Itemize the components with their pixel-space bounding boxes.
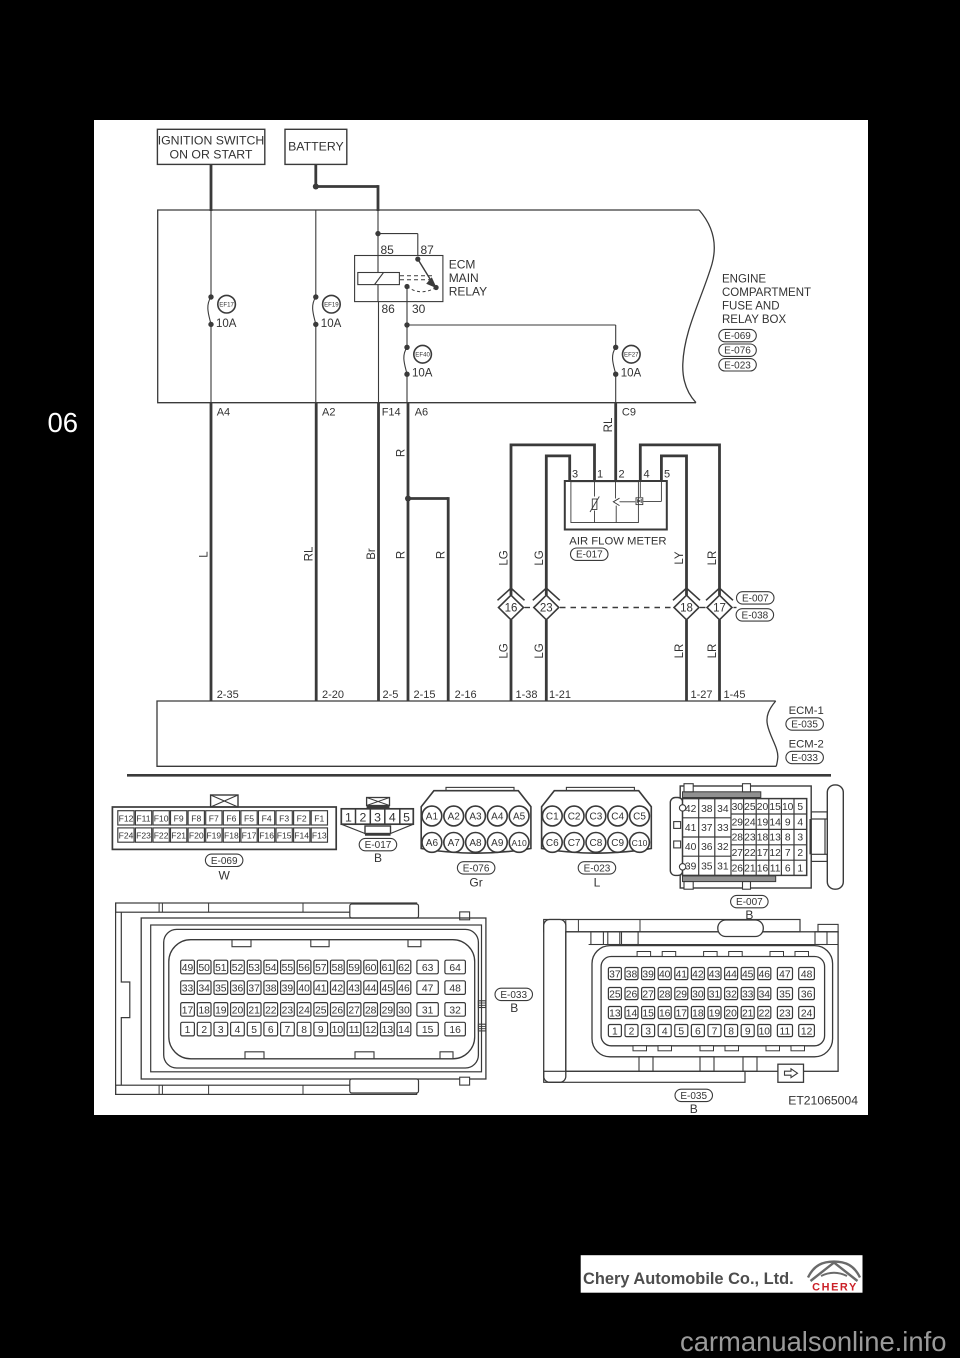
connector ref E-017 (571, 548, 609, 561)
svg-text:28: 28 (365, 1005, 377, 1016)
wire colour labels above connectors (499, 550, 720, 565)
svg-text:16: 16 (659, 1009, 671, 1020)
svg-text:2-35: 2-35 (217, 689, 239, 701)
svg-text:15: 15 (422, 1025, 434, 1036)
dashed connector grouping line (525, 607, 737, 609)
svg-text:E-076: E-076 (724, 346, 751, 357)
wire branch to EF27 (407, 325, 616, 347)
svg-text:1: 1 (185, 1025, 191, 1036)
connector ref E-076 (719, 344, 757, 357)
svg-text:25: 25 (315, 1005, 327, 1016)
svg-text:26: 26 (332, 1005, 344, 1016)
svg-text:F24: F24 (119, 831, 134, 841)
svg-text:F17: F17 (242, 831, 257, 841)
connector E-007 bottom tabs (684, 882, 751, 890)
svg-text:F18: F18 (224, 831, 239, 841)
svg-text:30: 30 (732, 802, 744, 813)
svg-text:60: 60 (365, 963, 377, 974)
svg-text:E-033: E-033 (500, 990, 527, 1001)
svg-text:24: 24 (744, 817, 756, 828)
svg-text:35: 35 (215, 984, 227, 995)
connector ref E-023 (719, 359, 757, 372)
svg-text:23: 23 (779, 1009, 791, 1020)
svg-text:2-5: 2-5 (383, 689, 399, 701)
svg-text:10: 10 (782, 802, 794, 813)
svg-text:87: 87 (421, 243, 435, 257)
wire ignition feed (210, 164, 213, 211)
connector E-017 lower key (341, 824, 413, 834)
connector E-007 outer shell (680, 786, 811, 888)
engine compartment fuse and relay box label (722, 274, 811, 327)
wire to relay 87 (378, 234, 418, 256)
node battery junction (313, 184, 319, 190)
node relay branch (375, 231, 380, 236)
connector ref E-033 (786, 751, 824, 764)
svg-text:11: 11 (349, 1025, 360, 1036)
svg-text:Br: Br (366, 548, 378, 560)
connector E-035 top flange (544, 920, 838, 932)
svg-text:10A: 10A (321, 318, 342, 330)
svg-text:AIR FLOW METER: AIR FLOW METER (569, 536, 666, 548)
svg-text:Chery Automobile Co., Ltd.: Chery Automobile Co., Ltd. (583, 1270, 794, 1288)
svg-text:58: 58 (332, 963, 344, 974)
connector E-076 body and pins (421, 787, 531, 889)
svg-text:22: 22 (759, 1009, 771, 1020)
connector E-035 top hump (718, 920, 764, 937)
svg-text:86: 86 (382, 302, 396, 316)
svg-text:ECM-2: ECM-2 (789, 739, 824, 751)
relay terminal labels 86 30 (382, 302, 426, 316)
svg-text:F12: F12 (119, 813, 134, 823)
svg-text:F9: F9 (174, 813, 184, 823)
svg-text:33: 33 (717, 823, 729, 834)
svg-text:B: B (690, 1102, 698, 1116)
svg-text:FUSE AND: FUSE AND (722, 301, 780, 313)
svg-text:F3: F3 (279, 813, 289, 823)
svg-text:9: 9 (785, 817, 791, 828)
svg-text:22: 22 (744, 848, 756, 859)
svg-text:25: 25 (744, 802, 756, 813)
svg-text:32: 32 (717, 842, 729, 853)
wire EF27 to C9 (615, 374, 617, 403)
svg-text:57: 57 (315, 963, 327, 974)
svg-text:55: 55 (282, 963, 294, 974)
svg-text:EF27: EF27 (624, 352, 639, 359)
svg-text:C7: C7 (568, 838, 581, 849)
svg-text:EF17: EF17 (219, 302, 234, 309)
svg-text:MAIN: MAIN (449, 271, 479, 285)
svg-text:27: 27 (348, 1005, 360, 1016)
svg-text:42: 42 (692, 970, 704, 981)
Chery logo wordmark (812, 1282, 858, 1294)
svg-text:9: 9 (745, 1027, 751, 1038)
svg-text:25: 25 (609, 990, 621, 1001)
svg-text:IGNITION SWITCH: IGNITION SWITCH (158, 134, 265, 148)
AFM diode at pin 4 (636, 481, 643, 505)
connector E-007 left bumps (674, 822, 681, 848)
svg-text:A2: A2 (448, 812, 461, 823)
wire 30 down (406, 287, 408, 326)
connector E-007 left tab (670, 798, 683, 876)
pin labels A4 A2 F14 A6 C9 (217, 407, 636, 419)
svg-text:F23: F23 (136, 831, 151, 841)
svg-text:2-20: 2-20 (322, 689, 344, 701)
wire battery feed (314, 164, 317, 188)
svg-text:A7: A7 (448, 838, 461, 849)
svg-text:8: 8 (785, 833, 791, 844)
svg-text:16: 16 (505, 603, 518, 615)
svg-text:E-017: E-017 (365, 840, 392, 851)
svg-text:F4: F4 (262, 813, 272, 823)
svg-text:E-017: E-017 (576, 550, 603, 561)
relay coil (358, 273, 400, 285)
svg-text:C9: C9 (611, 838, 624, 849)
svg-text:E-007: E-007 (736, 897, 763, 908)
footer company name (583, 1270, 794, 1288)
svg-text:ECM-1: ECM-1 (789, 705, 824, 717)
svg-text:33: 33 (742, 990, 754, 1001)
svg-text:36: 36 (232, 984, 244, 995)
svg-text:50: 50 (198, 963, 210, 974)
svg-text:35: 35 (779, 990, 791, 1001)
connector E-069 body (112, 807, 336, 849)
svg-text:4: 4 (662, 1027, 668, 1038)
connector E-069 envelope symbol (211, 795, 238, 807)
watermark carmanualsonline.info (680, 1326, 946, 1357)
wire 17 to 1-45, colour LR (707, 620, 720, 701)
svg-text:4: 4 (797, 817, 803, 828)
E-035 colour B (690, 1102, 698, 1116)
svg-text:1-21: 1-21 (549, 689, 571, 701)
wire F14 to 2-5, colour Br (366, 403, 379, 701)
svg-text:L: L (594, 876, 601, 890)
wire AFM pin 1 to connector 16 (511, 445, 595, 595)
svg-text:E-023: E-023 (724, 360, 751, 371)
svg-text:36: 36 (701, 842, 713, 853)
svg-text:20: 20 (232, 1005, 244, 1016)
svg-text:R: R (436, 551, 448, 559)
ignition switch box (157, 129, 264, 164)
wire A2 to 2-20, colour RL (304, 403, 317, 701)
svg-text:15: 15 (642, 1009, 654, 1020)
svg-text:28: 28 (659, 990, 671, 1001)
E-069 colour W (219, 869, 231, 883)
connector ref E-035 label (675, 1089, 713, 1102)
svg-text:59: 59 (348, 963, 360, 974)
svg-text:W: W (219, 869, 231, 883)
svg-text:9: 9 (318, 1025, 324, 1036)
svg-text:1: 1 (345, 810, 352, 824)
connector E-035 bottom flange (544, 1071, 745, 1082)
svg-text:11: 11 (780, 1027, 791, 1038)
connector E-033 shell notches (232, 940, 453, 1059)
wire EF19 feed (315, 210, 317, 297)
diagram number ET21065004 (788, 1094, 858, 1108)
svg-text:ECM: ECM (449, 258, 476, 272)
connector E-033 body frames (141, 918, 486, 1079)
svg-text:85: 85 (381, 243, 395, 257)
svg-text:17: 17 (182, 1005, 194, 1016)
svg-text:17: 17 (676, 1009, 688, 1020)
svg-text:C9: C9 (622, 407, 636, 419)
svg-text:LG: LG (534, 550, 546, 565)
svg-text:14: 14 (398, 1025, 410, 1036)
svg-text:5: 5 (678, 1027, 684, 1038)
svg-text:21: 21 (248, 1005, 260, 1016)
svg-text:R: R (396, 551, 408, 559)
svg-text:16: 16 (757, 863, 769, 874)
svg-text:E-038: E-038 (742, 610, 769, 621)
connector E-033 top flange (116, 903, 417, 912)
svg-text:43: 43 (709, 970, 721, 981)
svg-text:A4: A4 (491, 812, 504, 823)
footer company box (581, 1255, 863, 1293)
svg-text:A1: A1 (426, 812, 439, 823)
wire battery branch to relay (314, 185, 378, 211)
svg-text:F22: F22 (154, 831, 169, 841)
svg-text:23: 23 (744, 833, 756, 844)
connector E-023 body and pins (542, 787, 652, 889)
svg-text:20: 20 (757, 802, 769, 813)
svg-text:carmanualsonline.info: carmanualsonline.info (680, 1326, 946, 1357)
svg-text:C1: C1 (546, 812, 559, 823)
svg-text:10: 10 (332, 1025, 344, 1036)
svg-text:2-16: 2-16 (455, 689, 477, 701)
svg-text:14: 14 (626, 1009, 638, 1020)
svg-text:53: 53 (248, 963, 260, 974)
svg-text:1-45: 1-45 (724, 689, 746, 701)
svg-text:47: 47 (422, 984, 434, 995)
AFM transistor at pin 2 (613, 481, 635, 523)
wire 23 to 1-21, colour LG (534, 620, 547, 701)
svg-text:13: 13 (382, 1025, 394, 1036)
connector E-035 pin grid (608, 968, 814, 1038)
connector E-035 shell notches (633, 952, 809, 1051)
svg-text:27: 27 (642, 990, 654, 1001)
svg-text:4: 4 (389, 810, 396, 824)
wire A4 to 2-35, colour L (199, 403, 212, 701)
svg-text:34: 34 (717, 804, 729, 815)
svg-text:3: 3 (797, 833, 803, 844)
svg-text:18: 18 (680, 603, 693, 615)
svg-text:17: 17 (713, 603, 726, 615)
E-007 colour B (745, 908, 753, 922)
svg-text:ET21065004: ET21065004 (788, 1094, 858, 1108)
svg-text:RL: RL (304, 546, 316, 561)
connector E-035 rounded shells (592, 946, 833, 1057)
svg-text:27: 27 (732, 848, 744, 859)
svg-text:12: 12 (801, 1027, 813, 1038)
svg-text:37: 37 (609, 970, 621, 981)
svg-text:48: 48 (449, 984, 461, 995)
svg-text:26: 26 (626, 990, 638, 1001)
wire 30 to EF40 (406, 325, 408, 347)
svg-text:RELAY BOX: RELAY BOX (722, 314, 786, 326)
svg-text:E-023: E-023 (584, 863, 611, 874)
svg-text:40: 40 (685, 842, 697, 853)
svg-text:4: 4 (235, 1025, 241, 1036)
svg-text:19: 19 (215, 1005, 227, 1016)
AFM pin 5 internal wire (643, 481, 661, 501)
fuse EF27 10A (613, 345, 642, 380)
svg-text:16: 16 (449, 1025, 461, 1036)
svg-text:14: 14 (769, 817, 781, 828)
fuse EF19 10A (313, 294, 342, 330)
wire C9 to air flow meter pin 2, colour RL (603, 403, 616, 481)
wire AFM pin 3 to connector 23 (546, 456, 569, 595)
E-017 colour B (374, 851, 382, 865)
svg-text:F11: F11 (136, 813, 150, 823)
svg-text:F6: F6 (226, 813, 236, 823)
connector E-033 bottom tab (350, 1077, 470, 1093)
wire EF40 to A6 (406, 374, 408, 403)
svg-text:3: 3 (374, 810, 381, 824)
svg-text:LR: LR (674, 644, 686, 659)
air flow meter pin numbers 3 1 2 4 5 (572, 469, 670, 481)
svg-text:56: 56 (298, 963, 310, 974)
svg-text:BATTERY: BATTERY (288, 140, 344, 154)
svg-text:A6: A6 (426, 838, 439, 849)
svg-text:29: 29 (732, 817, 744, 828)
svg-text:36: 36 (801, 990, 813, 1001)
svg-text:7: 7 (785, 848, 791, 859)
wire A6 to 2-15, colour R (396, 403, 409, 701)
svg-text:LR: LR (707, 551, 719, 566)
svg-text:LG: LG (499, 643, 511, 658)
wire relay 85 feed (377, 210, 379, 234)
svg-text:63: 63 (422, 963, 434, 974)
connector E-007 handle (827, 785, 843, 889)
svg-text:3: 3 (218, 1025, 224, 1036)
svg-text:44: 44 (725, 970, 737, 981)
svg-text:10A: 10A (412, 368, 433, 380)
svg-text:RELAY: RELAY (449, 285, 487, 299)
svg-text:B: B (374, 851, 382, 865)
svg-text:17: 17 (757, 848, 769, 859)
svg-text:F10: F10 (154, 813, 169, 823)
svg-text:F15: F15 (277, 831, 292, 841)
svg-text:E-035: E-035 (791, 720, 818, 731)
fuse EF40 10A (404, 345, 433, 380)
svg-text:2: 2 (629, 1027, 635, 1038)
air flow meter box (565, 481, 667, 530)
svg-text:2: 2 (619, 469, 625, 481)
svg-text:10A: 10A (216, 318, 237, 330)
connector E-033 pin grid (181, 960, 466, 1036)
fuse EF17 10A (208, 294, 237, 330)
svg-text:A4: A4 (217, 407, 230, 419)
svg-text:49: 49 (182, 963, 194, 974)
svg-text:41: 41 (315, 984, 327, 995)
svg-text:Gr: Gr (469, 876, 482, 890)
AIR FLOW METER label (569, 536, 666, 548)
connector E-007 top lock bar (683, 792, 761, 798)
relay terminal labels 85 87 (381, 243, 435, 257)
wire AFM pin 5 to connector 18 (661, 456, 686, 595)
svg-text:RL: RL (603, 417, 615, 432)
svg-text:31: 31 (717, 861, 729, 872)
svg-text:C6: C6 (546, 838, 559, 849)
svg-text:18: 18 (198, 1005, 210, 1016)
svg-text:42: 42 (685, 804, 697, 815)
relay mechanical link dashed (400, 276, 433, 280)
wire 86 to F14 (378, 302, 380, 403)
svg-text:38: 38 (265, 984, 277, 995)
svg-text:6: 6 (785, 863, 791, 874)
svg-text:1: 1 (797, 863, 803, 874)
svg-text:24: 24 (298, 1005, 310, 1016)
relay switch arm 87 to 30 (404, 257, 438, 292)
svg-text:C10: C10 (632, 838, 648, 848)
svg-text:28: 28 (732, 833, 744, 844)
connector ref E-035 (786, 718, 824, 731)
svg-text:30: 30 (398, 1005, 410, 1016)
svg-text:10A: 10A (621, 368, 642, 380)
svg-text:C3: C3 (590, 812, 603, 823)
svg-text:40: 40 (659, 970, 671, 981)
svg-text:34: 34 (198, 984, 210, 995)
svg-text:20: 20 (725, 1009, 737, 1020)
connector E-017 pin row (341, 809, 413, 825)
svg-text:35: 35 (701, 861, 713, 872)
connector pass-through 16 (498, 588, 525, 620)
svg-text:6: 6 (695, 1027, 701, 1038)
wire EF19 to A2 (315, 324, 317, 402)
svg-text:2: 2 (359, 810, 366, 824)
svg-text:F21: F21 (171, 831, 186, 841)
white schematic panel (94, 120, 868, 1115)
page number 06 (48, 407, 79, 438)
svg-text:8: 8 (728, 1027, 734, 1038)
connector E-033 bottom flange (116, 1085, 417, 1094)
svg-text:8: 8 (301, 1025, 307, 1036)
svg-text:51: 51 (215, 963, 227, 974)
svg-text:45: 45 (742, 970, 754, 981)
svg-text:F1: F1 (314, 813, 324, 823)
svg-text:34: 34 (759, 990, 771, 1001)
wire 16 to 1-38, colour LG (499, 620, 512, 701)
svg-text:EF40: EF40 (415, 352, 430, 359)
svg-text:41: 41 (685, 823, 697, 834)
svg-text:52: 52 (232, 963, 244, 974)
svg-text:37: 37 (248, 984, 260, 995)
svg-text:39: 39 (642, 970, 654, 981)
svg-text:13: 13 (609, 1009, 621, 1020)
svg-text:5: 5 (251, 1025, 257, 1036)
svg-text:A2: A2 (322, 407, 335, 419)
wire EF17 feed (210, 210, 212, 297)
svg-text:31: 31 (422, 1005, 434, 1016)
connector ref E-038 (736, 609, 774, 622)
node A6 branch (405, 496, 411, 502)
svg-text:A5: A5 (513, 812, 526, 823)
svg-text:19: 19 (709, 1009, 721, 1020)
svg-text:F16: F16 (259, 831, 274, 841)
ECM pin labels (217, 689, 746, 701)
connector E-007 bottom lock bar (683, 876, 776, 882)
svg-text:64: 64 (449, 963, 461, 974)
connector ref E-033 label (495, 988, 533, 1001)
node 30 branch (404, 322, 409, 327)
svg-text:1: 1 (612, 1027, 618, 1038)
engine compartment fuse and relay box frame (158, 210, 715, 403)
svg-text:F8: F8 (191, 813, 201, 823)
separator line (127, 774, 831, 777)
svg-text:15: 15 (769, 802, 781, 813)
svg-text:32: 32 (449, 1005, 461, 1016)
svg-text:30: 30 (412, 302, 426, 316)
svg-text:E-007: E-007 (742, 593, 769, 604)
